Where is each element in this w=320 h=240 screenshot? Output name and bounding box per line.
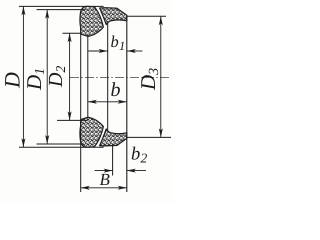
B dimension row (inside arrows between 80.7 and 126.6) xyxy=(81,186,127,190)
dimension line D (vertical, left) xyxy=(21,6,25,147)
svg-text:b2: b2 xyxy=(131,145,148,166)
dimension line D3 (vertical, right) xyxy=(159,16,163,137)
D3 bottom extension line xyxy=(127,136,171,138)
right face edge / extension line xyxy=(126,15,128,192)
D1 bottom extension line xyxy=(37,143,81,145)
left face / B extension line (vertical through) xyxy=(80,33,82,192)
svg-text:D2: D2 xyxy=(45,66,68,88)
lower blob: seal cross-section lower half (mirror, hatched) xyxy=(80,117,127,147)
D1 top extension line xyxy=(37,9,86,11)
b1 left extension line (valley end) xyxy=(107,22,109,132)
svg-text:D1: D1 xyxy=(22,68,48,91)
D bottom extension line xyxy=(19,146,104,148)
centerline (axis, dash-dot) xyxy=(70,76,170,78)
dimension line D2 xyxy=(68,33,72,120)
b1 dimension row (outside arrows at x=107.7 and 126.6) xyxy=(88,49,142,53)
D3 top extension line xyxy=(127,15,166,17)
D2 top extension line xyxy=(63,32,81,34)
dimension line D1 xyxy=(45,10,49,144)
b2 dimension row (outside arrows at 112.6 and 126.6) xyxy=(95,169,147,173)
D top extension line xyxy=(19,5,104,7)
svg-text:b1: b1 xyxy=(111,32,126,53)
b2 left extension line (chamfer corner) xyxy=(112,145,114,175)
D2 bottom extension line xyxy=(57,119,88,121)
svg-text:D3: D3 xyxy=(136,68,162,91)
svg-text:D: D xyxy=(0,72,25,89)
b dimension row (inside arrows between 87.8 and 126.6) xyxy=(88,100,127,104)
svg-text:b: b xyxy=(111,79,121,101)
groove bottom face edge / b extension line xyxy=(87,36,89,118)
upper blob: seal cross-section upper half (hatched) xyxy=(80,6,127,36)
svg-text:B: B xyxy=(100,170,111,189)
